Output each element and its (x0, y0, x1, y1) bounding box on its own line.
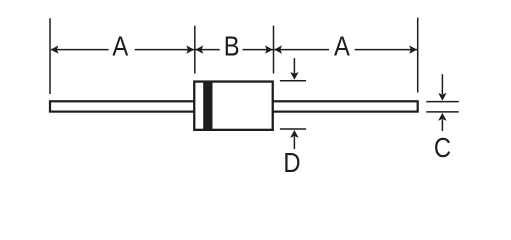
C top arrowhead pointing down (438, 93, 446, 101)
right lead (269, 101, 418, 111)
diode body (194, 82, 273, 130)
D bottom arrow line (293, 137, 295, 150)
arrowhead A-right pointing left (274, 45, 282, 53)
arrowhead B pointing right (265, 45, 273, 53)
svg-text:A: A (112, 30, 128, 62)
D extension line bottom (280, 128, 306, 130)
svg-text:D: D (283, 146, 300, 178)
C extension line top (426, 101, 459, 103)
dimension line B, segment 2 (243, 49, 274, 51)
svg-text:C: C (434, 131, 451, 163)
D bottom arrowhead pointing up (290, 130, 298, 138)
svg-text:B: B (224, 30, 240, 62)
arrowhead A-left pointing left (51, 45, 59, 53)
C extension line bottom (426, 111, 459, 113)
extension line body-left (A/B) (194, 26, 196, 74)
dimension line A right, segment 1 (274, 49, 329, 51)
C top arrow line (441, 74, 443, 94)
cathode band (203, 82, 212, 129)
C bottom arrowhead pointing up (438, 113, 446, 121)
C bottom arrow line (441, 120, 443, 132)
dimension line A left, segment 1 (51, 49, 109, 51)
left lead (50, 101, 200, 111)
dimension line B, segment 1 (196, 49, 220, 51)
arrowhead A-left pointing right (186, 45, 194, 53)
extension line right (A right) (417, 18, 419, 93)
dimension line A left, segment 2 (135, 49, 194, 51)
D top arrow line (293, 58, 295, 74)
extension line left (A left) (49, 18, 51, 94)
arrowhead B pointing left (196, 45, 204, 53)
arrowhead A-right pointing right (409, 45, 417, 53)
D top arrowhead pointing down (290, 72, 298, 80)
svg-text:A: A (334, 30, 350, 62)
D extension line top (280, 80, 306, 82)
extension line body-right (B/A) (273, 26, 275, 74)
dimension line A right, segment 2 (355, 49, 417, 51)
